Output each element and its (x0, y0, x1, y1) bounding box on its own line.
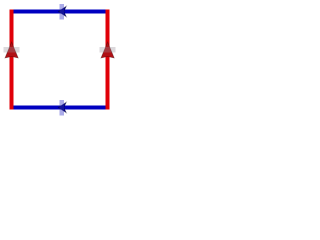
torus fundamental polygon diagram (0, 0, 120, 120)
node bottom tick (60, 100, 65, 116)
node left tick (4, 47, 20, 53)
node top arrow (left) (58, 6, 66, 16)
node right arrow (up) (101, 42, 114, 58)
node bottom arrow (left) (58, 102, 66, 112)
wire right edge a (red) (106, 10, 110, 110)
wire top edge b (blue) (10, 10, 110, 14)
node left arrow (up) (5, 42, 18, 58)
wire left edge a (red) (10, 10, 14, 110)
node right tick (100, 47, 116, 53)
wire bottom edge b (blue) (10, 106, 110, 110)
node top tick (60, 4, 65, 20)
